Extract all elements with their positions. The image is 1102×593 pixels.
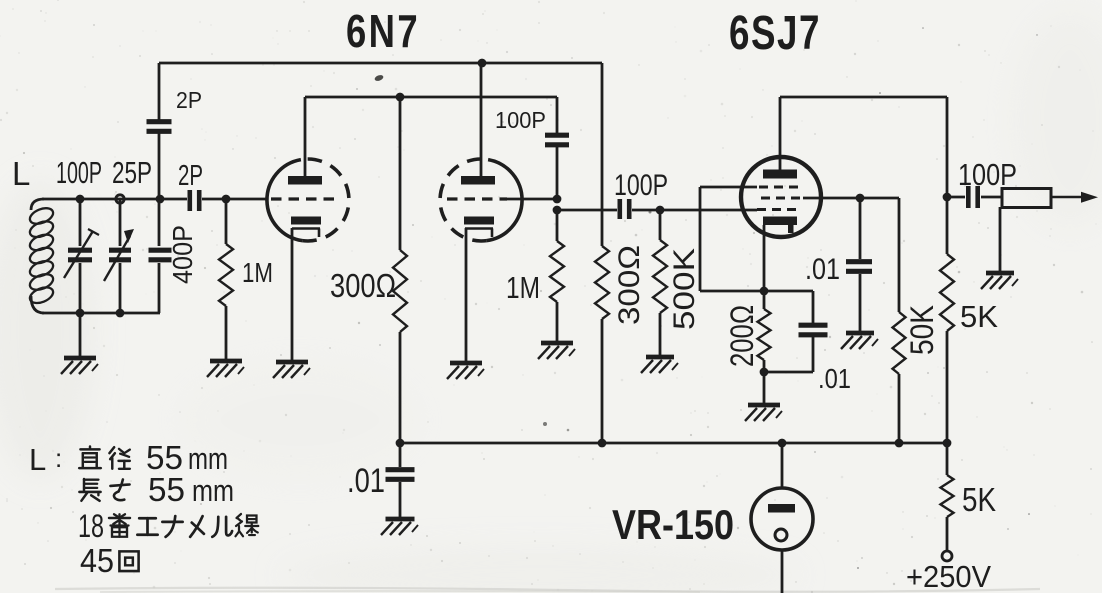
svg-text:500K: 500K [668, 248, 701, 330]
svg-text:2P: 2P [176, 87, 202, 113]
svg-text:100P: 100P [614, 169, 668, 202]
svg-text:.01: .01 [805, 253, 840, 286]
svg-text:100P: 100P [56, 155, 102, 190]
svg-text:6N7: 6N7 [346, 5, 420, 57]
svg-text:25P: 25P [112, 155, 152, 190]
svg-text:L: L [12, 155, 30, 192]
svg-text:+250V: +250V [906, 559, 991, 593]
svg-text:100P: 100P [495, 107, 546, 133]
svg-text:mm: mm [192, 473, 234, 508]
svg-text:mm: mm [188, 441, 228, 476]
svg-text:400P: 400P [167, 225, 198, 284]
svg-text:VR-150: VR-150 [612, 501, 734, 548]
svg-text:1M: 1M [242, 257, 273, 288]
svg-text:45: 45 [80, 542, 114, 579]
svg-text:18: 18 [78, 508, 104, 544]
svg-text:100P: 100P [958, 157, 1017, 192]
svg-text:200Ω: 200Ω [724, 305, 760, 367]
svg-text:2P: 2P [178, 160, 203, 192]
svg-text:300Ω: 300Ω [330, 267, 396, 304]
svg-text:300Ω: 300Ω [613, 245, 646, 325]
svg-text:5K: 5K [962, 481, 996, 518]
svg-text:6SJ7: 6SJ7 [729, 7, 821, 60]
svg-text:.01: .01 [347, 462, 385, 500]
svg-text:.01: .01 [818, 363, 851, 394]
svg-text:50K: 50K [904, 305, 940, 355]
svg-text:5K: 5K [960, 299, 998, 334]
svg-text:1M: 1M [506, 270, 540, 305]
svg-text:L: L [29, 442, 46, 477]
svg-text::: : [55, 443, 62, 473]
svg-text:55: 55 [148, 471, 185, 508]
